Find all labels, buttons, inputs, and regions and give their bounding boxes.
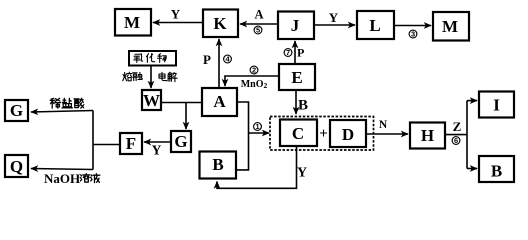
svg-text:P: P <box>297 46 304 60</box>
label 熔融 left of oxide arrow <box>123 72 132 81</box>
circled 4 right of A-K arrow <box>224 55 232 64</box>
box G1 left <box>5 100 28 121</box>
svg-text:G: G <box>174 132 187 151</box>
svg-text:M: M <box>442 17 458 36</box>
svg-text:C: C <box>292 124 304 143</box>
svg-text:H: H <box>421 126 434 145</box>
box E <box>279 64 315 90</box>
svg-text:A: A <box>254 8 263 22</box>
box W <box>142 90 161 110</box>
arrow L to M2, label cir3 <box>394 25 431 27</box>
svg-text:J: J <box>291 16 300 35</box>
arrow trunk to Q, label NaOH solution <box>31 169 93 170</box>
arrow J to L, label Y <box>314 24 355 26</box>
arrow J to K, label A cir5 <box>240 23 278 25</box>
box K <box>203 10 238 38</box>
box B1 lower-middle <box>200 152 237 179</box>
arrow K to M1, label Y <box>153 22 203 24</box>
svg-text:K: K <box>213 14 227 33</box>
box I <box>479 92 514 118</box>
box Q <box>5 155 28 177</box>
label NaOH溶液 on arrow to Q <box>80 174 89 182</box>
arrow trunk to G1, label dilute HCl <box>31 111 93 113</box>
circled 1 above junction-C arrow <box>254 122 262 131</box>
circled 5 below A label <box>254 26 262 35</box>
circled 2 above E-A wire <box>250 66 258 75</box>
svg-text:6: 6 <box>454 136 458 145</box>
arrow branch to I <box>467 100 477 102</box>
svg-text:B: B <box>298 98 308 114</box>
arrow E up to J, labels cir7 P <box>294 41 296 64</box>
arrow G2 to F, label Y <box>144 141 171 143</box>
svg-text:1: 1 <box>255 122 259 131</box>
circled 6 below H branch wire <box>452 136 460 145</box>
box H <box>410 123 445 149</box>
svg-text:MnO2: MnO2 <box>241 79 268 90</box>
svg-text:Q: Q <box>10 157 23 176</box>
svg-text:B: B <box>212 155 223 174</box>
svg-text:5: 5 <box>256 26 260 35</box>
box D <box>330 120 366 147</box>
arrow A up to K, labels P cir4 <box>218 39 220 88</box>
svg-text:7: 7 <box>286 48 290 57</box>
wire A right then down joining B1 output <box>236 102 249 170</box>
box G2 middle <box>171 131 191 152</box>
box J <box>278 12 314 40</box>
svg-text:D: D <box>342 125 354 144</box>
svg-text:Z: Z <box>453 119 462 134</box>
arrow E down to C dashed box, label B <box>295 90 297 114</box>
svg-text:3: 3 <box>411 30 415 39</box>
branch vertical line right <box>466 101 468 169</box>
trunk vertical line <box>92 111 94 170</box>
svg-text:G: G <box>10 101 23 120</box>
svg-text:P: P <box>203 52 211 67</box>
wire H right to branch vertical, labels Z cir6 <box>445 134 467 136</box>
svg-text:W: W <box>143 91 160 110</box>
label 氧化物 in oxide box <box>134 54 143 63</box>
wire E left then down into A, labels cir2 MnO2 <box>225 76 279 86</box>
box A <box>202 88 237 116</box>
svg-text:E: E <box>291 68 302 87</box>
box oxide (氧化物) <box>129 51 176 66</box>
box M2 top-right <box>433 12 469 41</box>
svg-text:M: M <box>124 13 140 32</box>
wire F left to trunk <box>93 144 120 146</box>
label 电解 right of oxide arrow <box>159 72 167 80</box>
arrow branch down into G2 <box>185 103 187 130</box>
arrow oxide box down to W <box>150 66 152 89</box>
circled 3 below L-M2 arrow <box>409 30 417 39</box>
arrow branch to B2 <box>467 168 477 170</box>
svg-text:L: L <box>369 16 380 35</box>
box B2 right <box>479 156 514 182</box>
box L <box>357 11 394 39</box>
svg-text:A: A <box>213 92 226 111</box>
circled 7 left of E-J arrow <box>284 48 292 57</box>
svg-text:Y: Y <box>297 166 307 181</box>
svg-text:Y: Y <box>171 7 181 22</box>
wire W to A <box>161 102 203 104</box>
svg-text:2: 2 <box>252 66 256 75</box>
svg-text:N: N <box>379 119 388 131</box>
label 稀盐酸 on arrow to G1 <box>50 98 60 108</box>
svg-text:Y: Y <box>329 10 339 25</box>
svg-text:+: + <box>319 126 328 142</box>
dashed box around C and D <box>270 117 374 151</box>
svg-text:NaOH: NaOH <box>44 171 80 186</box>
svg-text:Y: Y <box>152 143 162 158</box>
svg-text:B: B <box>491 162 502 181</box>
box M1 top-left <box>115 9 151 36</box>
svg-text:F: F <box>126 134 136 153</box>
arrow D to H, label N <box>366 133 408 135</box>
wire C bottom down left and up into B1, label Y <box>217 147 297 189</box>
arrow junction into dashed box, label cir1 <box>249 132 270 134</box>
box C <box>280 120 317 147</box>
svg-text:I: I <box>493 96 500 115</box>
box F <box>120 133 142 154</box>
